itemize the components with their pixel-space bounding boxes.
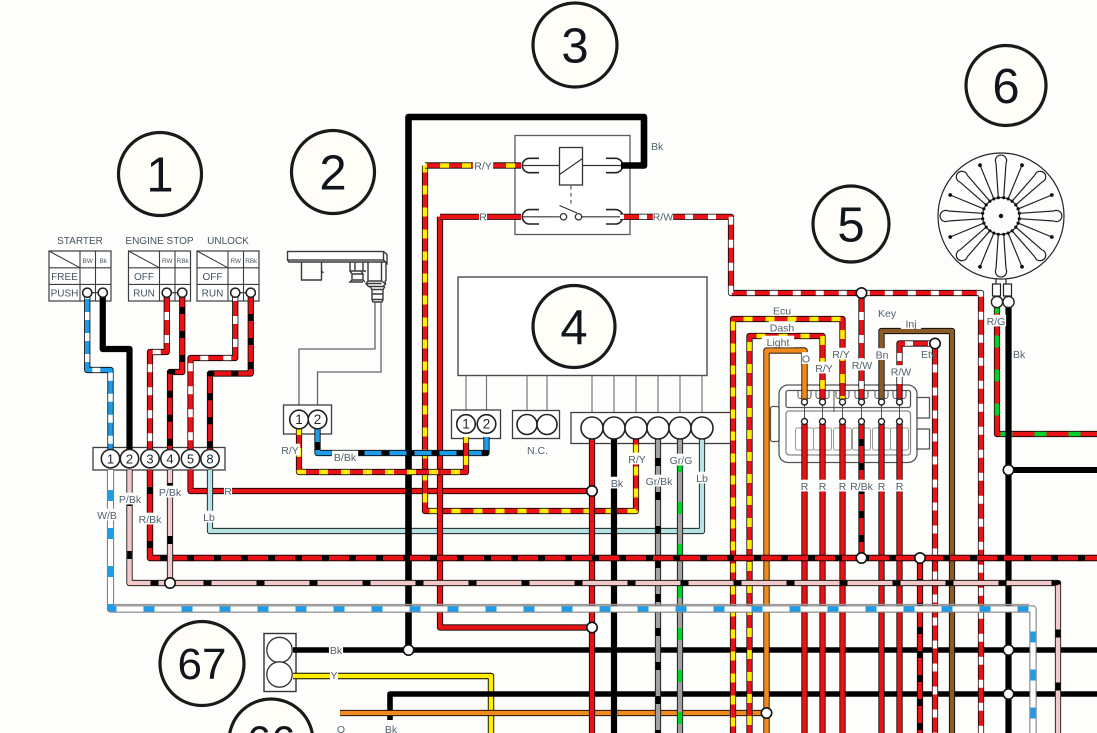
alternator stator bbox=[938, 153, 1064, 279]
label R/Bk bbox=[137, 513, 163, 525]
svg-text:Bk: Bk bbox=[330, 645, 343, 657]
svg-text:5: 5 bbox=[187, 451, 194, 466]
svg-text:2: 2 bbox=[126, 451, 133, 466]
svg-text:Etv: Etv bbox=[921, 349, 937, 361]
wire R/Bk engine-stop to pin4 bbox=[170, 295, 182, 450]
svg-text:R/W: R/W bbox=[852, 360, 873, 372]
wire Gr/G conn-C pin5 bbox=[677, 438, 683, 733]
svg-text:Inj: Inj bbox=[905, 318, 916, 330]
label R/Y bbox=[280, 444, 300, 456]
svg-text:1: 1 bbox=[462, 417, 470, 432]
svg-text:1: 1 bbox=[146, 148, 173, 202]
svg-text:UNLOCK: UNLOCK bbox=[207, 236, 249, 247]
wire Bk starter to pin2 bbox=[103, 295, 130, 450]
label Bn bbox=[875, 348, 889, 360]
svg-text:R: R bbox=[896, 481, 904, 493]
label R/Y bbox=[473, 159, 493, 171]
junction Bk 470 bbox=[1003, 465, 1013, 475]
junction orange bbox=[761, 708, 771, 718]
label Dash bbox=[769, 321, 795, 333]
label R/W bbox=[852, 359, 872, 371]
svg-text:2: 2 bbox=[483, 417, 491, 432]
svg-text:66: 66 bbox=[247, 718, 296, 733]
part 2 bracket outline bbox=[288, 252, 388, 303]
wire Lb pin8 bus bbox=[210, 438, 702, 531]
label W/B bbox=[97, 509, 117, 521]
wire B/Bk part2 pin2 to connector B pin2 bbox=[318, 429, 487, 453]
label R/W bbox=[891, 365, 911, 377]
svg-text:R/Bk: R/Bk bbox=[850, 481, 874, 493]
junction R bus/pin1 bbox=[587, 486, 597, 496]
connector N.C. body bbox=[513, 411, 560, 439]
label Light bbox=[762, 336, 794, 348]
wire R fuse1 out bbox=[801, 424, 807, 733]
alternator pins bbox=[993, 279, 1012, 296]
wire P/Bk pin4 stub bbox=[167, 470, 173, 583]
wire B/W starter to pin1 bbox=[87, 295, 110, 450]
label Gr/Bk bbox=[643, 475, 675, 487]
junction P/Bk bbox=[165, 578, 175, 588]
svg-text:STARTER: STARTER bbox=[57, 236, 103, 247]
svg-text:OFF: OFF bbox=[203, 272, 223, 283]
connector 2P part2 body bbox=[284, 405, 332, 434]
svg-text:Light: Light bbox=[767, 337, 790, 349]
box4 pin leads bbox=[466, 376, 702, 417]
label R/Bk bbox=[848, 480, 874, 492]
junction Etv bbox=[930, 338, 940, 348]
svg-text:RBk: RBk bbox=[177, 258, 190, 265]
alternator terminal pins bbox=[991, 296, 1002, 307]
wire R/Bk fuse4 out bbox=[858, 424, 864, 558]
node 67 callout bbox=[160, 622, 244, 706]
label Bk bbox=[610, 477, 624, 489]
svg-text:N.C.: N.C. bbox=[527, 445, 548, 457]
node 6 callout bbox=[966, 46, 1046, 126]
svg-text:Bk: Bk bbox=[385, 724, 398, 733]
junction R lower bbox=[587, 622, 597, 632]
wire R/Y relay coil feed bbox=[425, 166, 636, 512]
svg-text:1: 1 bbox=[107, 451, 114, 466]
node 66 callout bbox=[229, 699, 313, 733]
fuse pins bbox=[802, 399, 808, 405]
svg-text:Bk: Bk bbox=[1013, 349, 1026, 361]
svg-text:R/G: R/G bbox=[987, 316, 1006, 328]
wire Bk relay to ground bus bbox=[409, 117, 645, 650]
svg-text:ENGINE STOP: ENGINE STOP bbox=[125, 236, 193, 247]
wire Bk alternator bbox=[1005, 308, 1011, 733]
svg-text:RW: RW bbox=[162, 258, 172, 265]
svg-text:R: R bbox=[801, 481, 809, 493]
svg-text:R/Bk: R/Bk bbox=[139, 514, 163, 526]
wire R/Y Ecu bbox=[733, 319, 843, 733]
wire W/B pin1 bus bbox=[108, 604, 1030, 606]
relay switch contacts bbox=[523, 216, 560, 218]
wire R fuse6 out bbox=[896, 424, 902, 733]
wire R/Y Dash bbox=[750, 336, 823, 733]
svg-text:8: 8 bbox=[206, 451, 213, 466]
wire Bk right bus 470 bbox=[1009, 467, 1097, 473]
wire R fuse3 out bbox=[839, 424, 845, 733]
wire Bk conn-C pin2 bbox=[611, 438, 617, 733]
wire Bn Inj bbox=[882, 331, 953, 733]
label Inj bbox=[901, 317, 921, 329]
bulb unit 67 bulbs bbox=[267, 637, 292, 662]
label R bbox=[818, 480, 826, 492]
connector B pins bbox=[457, 415, 476, 434]
svg-text:R/W: R/W bbox=[891, 366, 912, 378]
svg-text:RBk: RBk bbox=[245, 258, 258, 265]
label B/Bk bbox=[332, 451, 358, 463]
label R bbox=[224, 485, 232, 497]
ECU box U4 bbox=[458, 277, 707, 376]
svg-text:B/Bk: B/Bk bbox=[334, 452, 357, 464]
label O bbox=[802, 352, 810, 364]
wire R/G alternator bbox=[997, 308, 1097, 435]
relay switch terminals bbox=[522, 210, 539, 224]
label P/Bk bbox=[157, 486, 183, 498]
label Lb bbox=[202, 511, 216, 523]
wire R fuse2 out bbox=[819, 424, 825, 733]
svg-text:R/Y: R/Y bbox=[281, 445, 299, 457]
wire O Light bbox=[767, 351, 805, 733]
svg-text:R/Y: R/Y bbox=[474, 160, 492, 172]
svg-text:PUSH: PUSH bbox=[51, 289, 79, 300]
relay coil terminals bbox=[522, 158, 539, 172]
svg-text:BW: BW bbox=[83, 258, 93, 265]
wire O lower bus bbox=[340, 710, 767, 716]
label R bbox=[877, 480, 885, 492]
bulb unit 67 body bbox=[264, 634, 296, 692]
svg-text:R/Y: R/Y bbox=[832, 349, 850, 361]
node 3 callout bbox=[533, 3, 617, 87]
label P/Bk bbox=[117, 493, 143, 505]
wire Y bulb bbox=[293, 676, 491, 733]
svg-text:Bn: Bn bbox=[876, 349, 889, 361]
junction Bk 694 right bbox=[1003, 689, 1013, 699]
svg-text:5: 5 bbox=[837, 198, 864, 252]
connector strip pins 1-8 bbox=[101, 450, 119, 468]
svg-text:RW: RW bbox=[231, 258, 241, 265]
svg-text:Bk: Bk bbox=[100, 258, 108, 265]
label R/Y bbox=[814, 362, 834, 374]
svg-text:Bk: Bk bbox=[611, 478, 624, 490]
svg-text:RUN: RUN bbox=[202, 289, 224, 300]
label Bk bbox=[329, 644, 343, 656]
svg-text:W/B: W/B bbox=[97, 510, 117, 522]
wire R/Y part2 pin1 to connector B pin1 bbox=[299, 429, 466, 472]
wire R relay switch feed bbox=[440, 217, 592, 628]
wire R/W Etv bbox=[900, 344, 936, 401]
svg-text:Bk: Bk bbox=[651, 141, 664, 153]
connector B 2P body bbox=[452, 410, 501, 439]
label R/W bbox=[653, 211, 673, 223]
svg-text:R: R bbox=[479, 212, 487, 224]
wire R/Bk unlock to pin8 bbox=[210, 295, 251, 450]
node 2 callout bbox=[292, 131, 375, 214]
junction Bk relay-drop bbox=[403, 645, 413, 655]
part 2 lead wires bbox=[299, 302, 375, 406]
svg-text:3: 3 bbox=[561, 19, 588, 73]
svg-text:Ecu: Ecu bbox=[773, 305, 791, 317]
wire R conn-C pin1 bbox=[589, 438, 595, 733]
label R bbox=[800, 480, 808, 492]
wire R/W relay out to key bus bbox=[620, 217, 981, 733]
junction R/Bk branch bbox=[915, 553, 925, 563]
junction R/Bk fuse4 bbox=[856, 553, 866, 563]
wire R/W unlock to pin5 bbox=[191, 295, 236, 450]
svg-text:R: R bbox=[839, 481, 847, 493]
label R/G bbox=[986, 315, 1006, 327]
wire R/Bk branch down bbox=[917, 558, 923, 733]
connector C pins bbox=[581, 417, 603, 439]
svg-text:O: O bbox=[802, 353, 810, 365]
connector C 6P body bbox=[571, 413, 731, 444]
node 1 callout bbox=[119, 133, 202, 216]
svg-text:67: 67 bbox=[178, 640, 227, 689]
label Lb bbox=[695, 472, 709, 484]
svg-text:Key: Key bbox=[878, 308, 897, 320]
svg-text:2: 2 bbox=[319, 146, 346, 200]
svg-text:4: 4 bbox=[560, 301, 587, 355]
label R bbox=[479, 211, 487, 223]
label Gr/G bbox=[668, 454, 694, 466]
label R/Y bbox=[627, 453, 647, 465]
svg-text:1: 1 bbox=[295, 412, 303, 427]
switch terminal pins bbox=[83, 288, 92, 297]
fuse box body bbox=[771, 385, 930, 463]
label Y bbox=[330, 669, 338, 681]
label R bbox=[895, 480, 903, 492]
connector N.C. pins bbox=[517, 415, 537, 435]
relay box U3 bbox=[515, 136, 630, 235]
label R bbox=[838, 480, 846, 492]
node 5 callout bbox=[813, 186, 889, 262]
label Ecu bbox=[772, 304, 792, 316]
label R/Y bbox=[831, 348, 851, 360]
svg-text:Lb: Lb bbox=[203, 512, 215, 524]
junction Bk 650 right bbox=[1003, 645, 1013, 655]
svg-text:OFF: OFF bbox=[134, 272, 154, 283]
svg-text:O: O bbox=[337, 724, 345, 733]
wire R/W engine-stop to pin3 bbox=[150, 295, 167, 450]
wire Gr/Bk conn-C pin4 bbox=[655, 438, 661, 733]
svg-text:Dash: Dash bbox=[770, 322, 795, 334]
wire P/Bk pin2 bus bbox=[130, 470, 1059, 733]
svg-text:RUN: RUN bbox=[133, 289, 155, 300]
svg-text:FREE: FREE bbox=[51, 272, 78, 283]
wire R/W Key fuse bbox=[858, 293, 864, 400]
svg-text:P/Bk: P/Bk bbox=[159, 487, 182, 499]
relay coil bbox=[560, 148, 583, 186]
svg-text:Gr/G: Gr/G bbox=[670, 455, 693, 467]
svg-text:2: 2 bbox=[314, 412, 322, 427]
connector 2P part2 pins bbox=[290, 410, 309, 429]
svg-text:Lb: Lb bbox=[696, 473, 708, 485]
svg-text:3: 3 bbox=[146, 451, 153, 466]
fuse box slots bbox=[796, 390, 909, 450]
wire R/Bk pin3 bus bbox=[150, 470, 1097, 558]
junction Key bbox=[856, 288, 866, 298]
svg-text:R: R bbox=[878, 481, 886, 493]
svg-text:R/W: R/W bbox=[653, 212, 674, 224]
svg-text:4: 4 bbox=[166, 451, 173, 466]
wire R pin5 bus bbox=[191, 470, 593, 491]
wire R fuse5 out bbox=[878, 424, 884, 733]
node 4 callout bbox=[533, 286, 615, 368]
svg-text:R: R bbox=[224, 486, 232, 498]
svg-text:R/Y: R/Y bbox=[628, 454, 646, 466]
connector strip pins 1-8 body bbox=[93, 448, 225, 471]
wire Bk lower bus 694 bbox=[390, 694, 1097, 720]
svg-text:Y: Y bbox=[330, 670, 337, 682]
svg-text:P/Bk: P/Bk bbox=[119, 494, 142, 506]
wire Bk bulb ground bus 650 bbox=[293, 647, 1097, 653]
relay actuator dashed link bbox=[570, 186, 572, 206]
svg-text:6: 6 bbox=[992, 60, 1019, 114]
svg-text:R: R bbox=[819, 481, 827, 493]
svg-text:R/Y: R/Y bbox=[815, 363, 833, 375]
svg-text:Gr/Bk: Gr/Bk bbox=[646, 476, 674, 488]
